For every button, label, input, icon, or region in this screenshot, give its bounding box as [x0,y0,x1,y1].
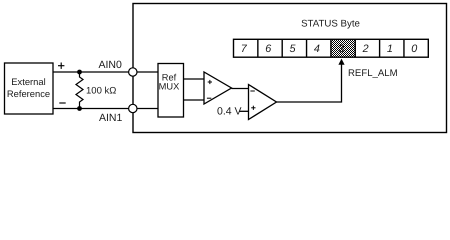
svg-text:1: 1 [387,43,393,55]
svg-text:REFL_ALM: REFL_ALM [348,68,398,79]
svg-text:Reference: Reference [7,88,50,99]
svg-text:MUX: MUX [159,82,180,92]
svg-text:STATUS Byte: STATUS Byte [301,19,360,30]
svg-text:External: External [11,76,45,87]
svg-text:4: 4 [314,43,320,55]
svg-text:2: 2 [362,43,369,55]
svg-text:0: 0 [411,43,417,55]
svg-text:6: 6 [265,43,271,55]
svg-text:5: 5 [289,43,296,55]
svg-text:0.4 V: 0.4 V [217,106,242,118]
svg-text:AIN0: AIN0 [99,59,123,71]
svg-text:AIN1: AIN1 [99,112,123,124]
svg-text:7: 7 [241,43,248,55]
svg-text:100 kΩ: 100 kΩ [86,86,116,97]
svg-text:3: 3 [338,43,344,55]
